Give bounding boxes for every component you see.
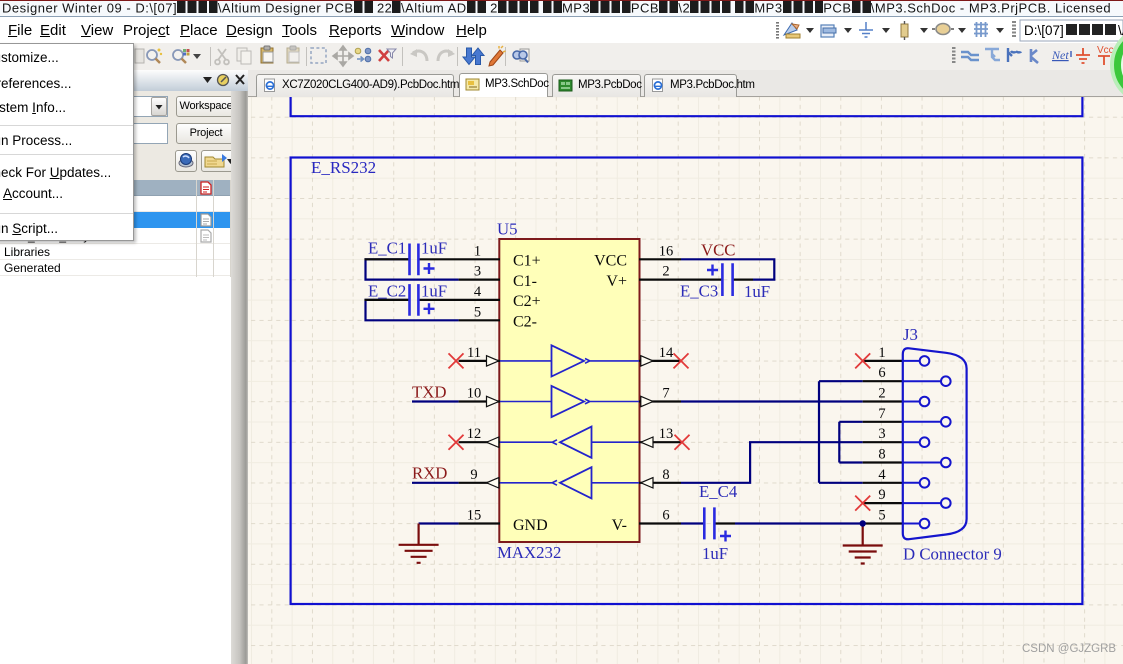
- svg-text:11: 11: [467, 345, 481, 361]
- svg-text:3: 3: [878, 426, 885, 442]
- svg-text:15: 15: [467, 508, 482, 524]
- svg-text:1uF: 1uF: [702, 544, 728, 563]
- svg-text:E_C2: E_C2: [368, 282, 406, 301]
- svg-text:9: 9: [878, 487, 885, 503]
- svg-text:3: 3: [474, 264, 481, 280]
- svg-text:D:\[07]: D:\[07]: [1024, 23, 1064, 38]
- svg-text:E_C3: E_C3: [680, 282, 718, 301]
- svg-text:8: 8: [878, 447, 885, 463]
- svg-text:TXD: TXD: [412, 383, 447, 402]
- svg-text:7: 7: [662, 386, 669, 402]
- svg-text:7: 7: [878, 406, 885, 422]
- svg-text:VCC: VCC: [701, 241, 736, 260]
- svg-text:1uF: 1uF: [421, 282, 447, 301]
- svg-text:GND: GND: [513, 517, 548, 534]
- svg-text:1uF: 1uF: [744, 282, 770, 301]
- svg-text:6: 6: [878, 365, 885, 381]
- svg-text:MAX232: MAX232: [497, 543, 561, 562]
- svg-text:6: 6: [662, 508, 669, 524]
- svg-text:V+: V+: [606, 273, 627, 290]
- svg-text:E_C1: E_C1: [368, 239, 406, 258]
- svg-text:4: 4: [474, 284, 482, 300]
- svg-text:8: 8: [662, 467, 669, 483]
- svg-text:5: 5: [878, 508, 885, 524]
- svg-text:10: 10: [467, 386, 482, 402]
- svg-text:Net: Net: [1051, 48, 1069, 62]
- svg-text:C1+: C1+: [513, 253, 541, 270]
- svg-text:1: 1: [474, 243, 481, 259]
- svg-text:C2+: C2+: [513, 293, 541, 310]
- svg-text:E_C4: E_C4: [699, 482, 738, 501]
- svg-text:J3: J3: [903, 325, 918, 344]
- svg-text:14: 14: [659, 345, 674, 361]
- svg-text:12: 12: [467, 426, 482, 442]
- svg-text:C2-: C2-: [513, 313, 537, 330]
- svg-text:16: 16: [659, 243, 674, 259]
- svg-text:D Connector 9: D Connector 9: [903, 545, 1002, 564]
- svg-text:4: 4: [878, 467, 886, 483]
- svg-text:E_RS232: E_RS232: [311, 158, 376, 177]
- svg-text:V-: V-: [612, 517, 627, 534]
- svg-text:C1-: C1-: [513, 273, 537, 290]
- svg-text:5: 5: [474, 304, 481, 320]
- svg-text:2: 2: [878, 386, 885, 402]
- svg-text:1: 1: [878, 345, 885, 361]
- svg-text:RXD: RXD: [412, 463, 447, 482]
- svg-text:U5: U5: [497, 220, 518, 239]
- svg-text:1uF: 1uF: [421, 239, 447, 258]
- svg-text:VCC: VCC: [594, 253, 627, 270]
- svg-text:13: 13: [659, 426, 674, 442]
- svg-text:2: 2: [662, 264, 669, 280]
- svg-text:9: 9: [470, 467, 477, 483]
